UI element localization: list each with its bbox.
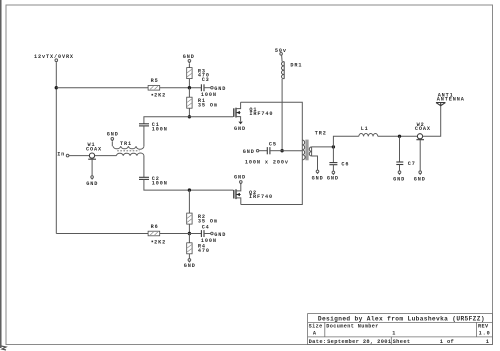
junction R5/R3/R1/C3: [188, 86, 191, 89]
scan smudge bottom-left: [1, 346, 6, 350]
svg-text:DR1: DR1: [290, 63, 302, 69]
svg-text:Designed by Alex from Lubashev: Designed by Alex from Lubashevka (UR5FZZ…: [318, 315, 485, 322]
svg-text:In: In: [57, 152, 65, 158]
wire Q2 drain rail: [241, 160, 302, 205]
wire In to W1: [69, 155, 89, 157]
wire TR2 sec bottom to gnd: [312, 156, 318, 170]
wire junction to R4: [188, 234, 190, 243]
svg-text:100N: 100N: [152, 180, 168, 186]
ground at W2: [414, 171, 426, 182]
svg-text:12vTX/0VRX: 12vTX/0VRX: [34, 54, 74, 60]
connector W2 COAX: [415, 122, 431, 140]
svg-text:35 Om: 35 Om: [198, 102, 218, 108]
wire gnd to R3: [188, 64, 190, 68]
svg-text:GND: GND: [414, 176, 426, 182]
svg-text:1.0: 1.0: [479, 330, 491, 336]
wire L1 to C7 junction: [378, 135, 418, 137]
wire R6 row: [56, 233, 201, 235]
svg-text:C6: C6: [341, 162, 349, 168]
wire W2 shield to gnd: [419, 140, 421, 171]
svg-text:2K2: 2K2: [154, 239, 166, 245]
capacitor C2: [139, 176, 168, 187]
svg-text:A: A: [313, 330, 317, 336]
svg-text:COAX: COAX: [415, 126, 431, 132]
transformer TR1: [113, 141, 144, 155]
resistor R2: [187, 213, 218, 225]
antenna ANT1: [436, 92, 465, 105]
ground at Q1 source: [234, 122, 246, 132]
ground at C5: [243, 149, 259, 155]
resistor R5: [148, 78, 166, 98]
ground at R3 top: [183, 54, 195, 64]
ground at C6: [327, 171, 339, 181]
svg-text:REV: REV: [478, 324, 489, 330]
capacitor C7: [396, 161, 416, 167]
inductor L1: [359, 126, 378, 136]
inductor DR1: [282, 62, 303, 79]
svg-text:Date:: Date:: [309, 339, 327, 345]
wire W2 to antenna: [423, 106, 441, 137]
junction R6 row: [188, 232, 191, 235]
wire R4 to gnd: [188, 254, 190, 259]
svg-text:IRF740: IRF740: [249, 111, 273, 117]
wire TR2 sec top to junction: [312, 146, 334, 148]
capacitor C5: [245, 141, 289, 165]
wire W1 to TR1: [95, 155, 117, 157]
wire TR1 to C2: [143, 156, 145, 178]
svg-text:C7: C7: [408, 161, 416, 167]
capacitor C3: [201, 77, 226, 98]
capacitor C1: [139, 122, 168, 132]
svg-text:GND: GND: [86, 181, 98, 187]
transformer TR2: [302, 131, 326, 161]
svg-text:C3: C3: [202, 77, 210, 83]
svg-text:Document Number: Document Number: [326, 324, 378, 330]
svg-text:GND: GND: [234, 174, 246, 180]
junction DR1/C5/TR2 tap: [280, 149, 283, 152]
svg-text:GND: GND: [243, 149, 255, 155]
wire gate row Q1: [144, 117, 233, 124]
wire gnd to TR1 winding: [111, 142, 113, 147]
junction gate row: [188, 115, 191, 118]
terminal 50v: [280, 53, 283, 56]
resistor R3: [187, 68, 210, 79]
ground at C7: [393, 171, 405, 182]
svg-text:100N: 100N: [152, 127, 168, 133]
capacitor C4: [201, 225, 226, 244]
wire R1 to gate row: [188, 108, 190, 117]
wire junction down to C6: [332, 147, 334, 163]
svg-text:September 28, 2001: September 28, 2001: [327, 339, 391, 345]
resistor R4: [187, 243, 210, 254]
ground at W1: [86, 176, 98, 187]
wire junction up to L1 row: [333, 136, 358, 147]
capacitor C6: [329, 162, 349, 168]
transistor Q1: [234, 102, 274, 121]
svg-text:2K2: 2K2: [154, 93, 166, 99]
svg-text:100N x 200v: 100N x 200v: [245, 159, 289, 165]
resistor R6: [148, 224, 166, 245]
wire C7 to gnd: [399, 165, 401, 171]
svg-text:Sheet: Sheet: [393, 339, 411, 345]
svg-text:Size: Size: [309, 324, 323, 330]
svg-text:1 of: 1 of: [440, 339, 454, 345]
wire DR1 to C5 junction: [281, 79, 283, 151]
wire junction to R1: [188, 88, 190, 98]
wire R2 to R6 row: [188, 224, 190, 233]
wire C6 to gnd: [332, 165, 334, 171]
wire 12v vertical: [55, 63, 57, 234]
wire tap to TR2: [282, 150, 302, 152]
junction gate row Q2: [188, 188, 191, 191]
scan edge artifact left: [0, 0, 2, 348]
wire junction to C7: [399, 136, 401, 162]
ground at Q2 source: [234, 174, 246, 185]
svg-text:COAX: COAX: [86, 147, 102, 153]
svg-text:TR1: TR1: [120, 141, 132, 147]
svg-text:1: 1: [486, 339, 490, 345]
svg-text:R6: R6: [151, 224, 159, 230]
svg-text:1: 1: [392, 330, 396, 336]
connector W1 COAX: [86, 142, 102, 159]
svg-text:GND: GND: [184, 263, 196, 269]
wire Q1 drain rail: [241, 102, 303, 140]
svg-text:IRF740: IRF740: [249, 194, 273, 200]
wire 50v to DR1: [281, 55, 284, 62]
terminal In: [66, 154, 69, 157]
svg-text:GND: GND: [312, 176, 324, 182]
svg-text:R5: R5: [151, 78, 159, 84]
wire C1 to TR1: [143, 126, 145, 146]
svg-text:GND: GND: [214, 86, 226, 92]
ground at R4: [184, 259, 196, 270]
wire W1 shield to gnd: [91, 159, 93, 175]
svg-text:C5: C5: [269, 141, 277, 147]
svg-text:470: 470: [198, 248, 210, 254]
svg-text:GND: GND: [327, 176, 339, 182]
wire junction to R2: [188, 190, 190, 213]
resistor R1: [187, 97, 218, 108]
wire R5 row: [56, 87, 201, 89]
terminal 12vTX/0VRX: [55, 59, 58, 62]
title block: [308, 314, 493, 345]
svg-text:GND: GND: [234, 126, 246, 132]
ground at TR2 secondary: [312, 170, 324, 181]
junction C7: [398, 135, 401, 138]
ground at TR1: [107, 131, 119, 141]
svg-text:GND: GND: [107, 131, 119, 137]
wire C2 to gate row Q2: [144, 179, 233, 190]
junction 12v/R5: [55, 86, 58, 89]
junction TR2 out: [332, 145, 335, 148]
svg-text:L1: L1: [361, 126, 369, 132]
transistor Q2: [234, 183, 273, 204]
svg-text:TR2: TR2: [315, 131, 327, 137]
svg-text:ANTENNA: ANTENNA: [437, 97, 465, 103]
svg-text:GND: GND: [393, 176, 405, 182]
wire R3 to junction: [188, 79, 190, 88]
svg-text:C4: C4: [202, 225, 210, 231]
